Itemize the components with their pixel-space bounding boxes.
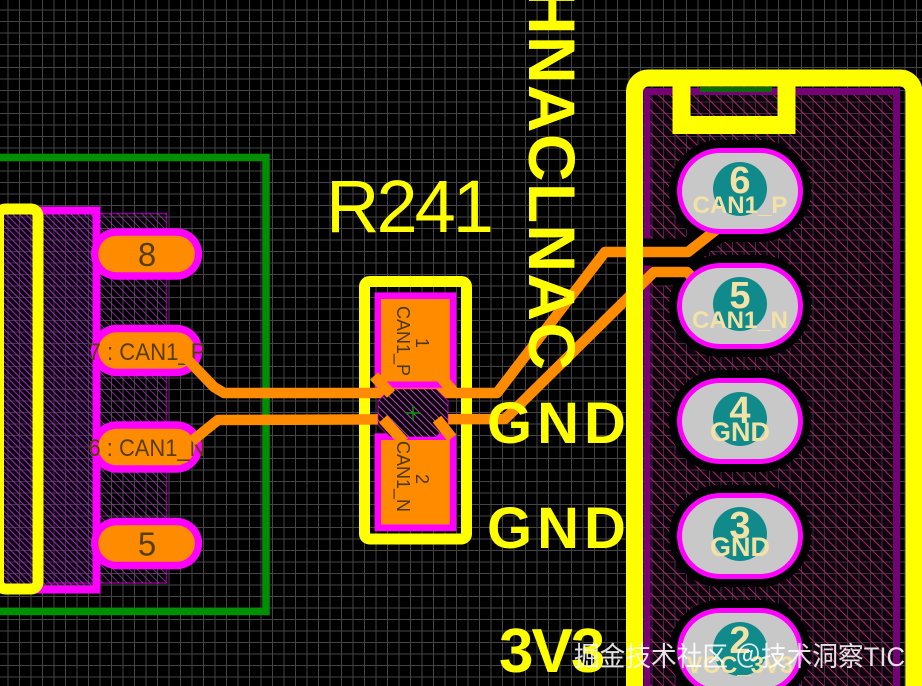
svg-text:HNACLNAC: HNACLNAC bbox=[515, 0, 589, 371]
svg-text:掘金技术社区 ＠技术洞察TIC: 掘金技术社区 ＠技术洞察TIC bbox=[574, 642, 905, 672]
connector copper clearance (black) around pads and wires bbox=[605, 140, 811, 686]
wire CAN1_N (pad6 to R241.2 to connector pad5) bbox=[192, 272, 712, 441]
R241 pad 2 labels bbox=[392, 441, 432, 512]
svg-text:GND: GND bbox=[710, 417, 770, 447]
svg-text:CAN1_N: CAN1_N bbox=[392, 441, 413, 512]
svg-text:2: 2 bbox=[412, 474, 432, 484]
IC U2 assembly outline (green) bbox=[0, 158, 266, 612]
resistor pad 1 bbox=[375, 292, 457, 388]
thermal relief hatch region between R241 pads bbox=[378, 389, 448, 437]
svg-text:6 : CAN1_N: 6 : CAN1_N bbox=[89, 435, 206, 462]
svg-text:GND: GND bbox=[487, 391, 631, 456]
IC U2 silkscreen outline bbox=[0, 209, 38, 589]
connector courtyard hatch bbox=[647, 92, 897, 686]
connector pad 5 CAN1_N bbox=[677, 263, 803, 349]
pad 5 bbox=[91, 518, 202, 570]
connector silkscreen outline bbox=[635, 78, 915, 686]
svg-text:R241: R241 bbox=[326, 165, 491, 248]
svg-text:1: 1 bbox=[412, 338, 432, 348]
pad 8 bbox=[91, 228, 202, 280]
svg-text:8: 8 bbox=[138, 236, 156, 273]
resistor pad 2 bbox=[375, 433, 457, 531]
IC U2 courtyard hatch (light) bbox=[101, 214, 167, 584]
IC U2 courtyard hatch (dense) bbox=[0, 211, 97, 590]
R241 pad connection stubs bbox=[374, 373, 453, 442]
resistor R241 silkscreen outline bbox=[365, 282, 467, 540]
connector pad 6 CAN1_P bbox=[677, 148, 803, 234]
wire CAN1_P (pad7 to R241.1 to connector pad6) bbox=[188, 226, 721, 393]
svg-text:CAN1_P: CAN1_P bbox=[392, 306, 413, 376]
pad 6 : CAN1_N bbox=[89, 421, 206, 473]
svg-text:GND: GND bbox=[487, 496, 631, 561]
R241 pad 1 labels bbox=[392, 306, 432, 376]
svg-text:CAN1_P: CAN1_P bbox=[693, 192, 788, 219]
svg-text:5: 5 bbox=[138, 526, 156, 563]
connector pad 3 GND bbox=[677, 493, 803, 579]
connector keying notch bbox=[682, 80, 787, 125]
connector keying notch green mark bbox=[700, 87, 772, 92]
R241 origin cross (green) bbox=[406, 406, 420, 420]
svg-text:GND: GND bbox=[710, 532, 770, 562]
pad 7 : CAN1_P bbox=[89, 325, 206, 377]
connector pad 4 GND bbox=[677, 378, 803, 464]
connector pad 2 VCC_3V3 bbox=[677, 608, 803, 686]
svg-text:CAN1_N: CAN1_N bbox=[692, 307, 788, 334]
